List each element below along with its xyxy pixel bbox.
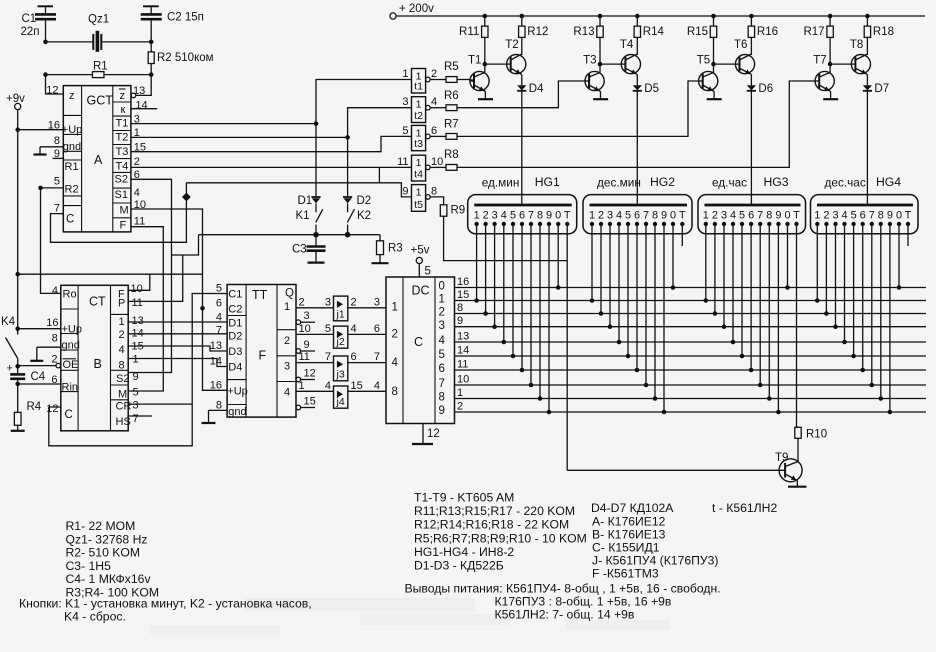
node A +Up <box>15 127 20 132</box>
svg-text:M: M <box>118 389 127 401</box>
svg-text:0: 0 <box>784 210 790 222</box>
svg-text:8: 8 <box>392 386 398 398</box>
wire B 8 to F D4 <box>128 359 227 367</box>
pin bubble F Q4 inverted <box>296 405 301 410</box>
svg-text:5: 5 <box>510 210 516 222</box>
resistor R14 <box>635 14 640 19</box>
svg-text:9: 9 <box>775 210 781 222</box>
svg-text:T4: T4 <box>620 39 634 51</box>
svg-text:15: 15 <box>457 289 469 301</box>
ground C3 <box>315 251 317 263</box>
svg-text:ед.мин: ед.мин <box>482 175 520 189</box>
wire D5 to display anode <box>636 91 638 205</box>
wire j1 to DC <box>348 307 386 309</box>
node K2 <box>345 232 351 238</box>
pin bubble t3 out <box>426 134 431 139</box>
svg-text:10: 10 <box>131 283 143 295</box>
svg-text:C3: C3 <box>292 244 307 256</box>
svg-text:14: 14 <box>135 99 147 111</box>
svg-text:T: T <box>793 210 800 222</box>
wire HG4 T stub <box>907 224 909 246</box>
svg-text:1: 1 <box>589 210 595 222</box>
svg-text:7: 7 <box>133 413 139 425</box>
wire D4 to display anode <box>521 91 523 205</box>
svg-text:gnd: gnd <box>228 406 246 418</box>
ground T3 emitter <box>593 98 608 100</box>
resistor R13 <box>598 14 603 19</box>
svg-text:4: 4 <box>216 312 222 324</box>
svg-text:Q: Q <box>285 288 294 300</box>
wire +9v to B +Up <box>18 328 61 330</box>
svg-text:6: 6 <box>51 374 57 386</box>
node 9v feed F <box>15 272 20 277</box>
svg-text:Qz1: Qz1 <box>88 14 109 26</box>
svg-text:7: 7 <box>54 202 60 214</box>
pin bubble t1 out <box>426 77 431 82</box>
svg-text:11: 11 <box>457 359 468 371</box>
capacitor C1 <box>35 13 56 16</box>
buffer j3 K561PU4 <box>334 356 348 381</box>
svg-text:Rin: Rin <box>62 382 79 394</box>
svg-text:3: 3 <box>439 320 445 332</box>
svg-text:0: 0 <box>439 280 445 292</box>
svg-text:16: 16 <box>457 276 469 288</box>
node T5 collector <box>711 62 716 67</box>
svg-text:HG1-HG4 - ИН8-2: HG1-HG4 - ИН8-2 <box>414 545 514 559</box>
svg-text:15: 15 <box>351 380 363 392</box>
node T1-D1 <box>314 121 319 126</box>
svg-text:16: 16 <box>46 317 58 329</box>
svg-text:t4: t4 <box>414 169 423 181</box>
svg-text:z: z <box>69 90 75 102</box>
svg-text:T: T <box>679 210 686 222</box>
svg-text:2: 2 <box>483 210 489 222</box>
svg-text:R14: R14 <box>643 26 665 38</box>
svg-text:j2: j2 <box>336 336 345 348</box>
terminal +200v <box>390 13 396 19</box>
svg-text:OE: OE <box>63 359 79 371</box>
resistor R10 <box>795 427 801 438</box>
svg-text:4: 4 <box>392 357 399 369</box>
node T7 collector <box>828 62 833 67</box>
wire DC output lines <box>455 287 927 289</box>
svg-text:2: 2 <box>431 68 437 80</box>
diode D4 <box>517 85 526 90</box>
svg-text:10: 10 <box>431 156 443 168</box>
op-amp U A K176IE12 GCT counter <box>63 86 131 232</box>
node B +Up <box>15 326 20 331</box>
svg-text:13: 13 <box>210 340 222 352</box>
svg-text:4: 4 <box>119 344 125 356</box>
svg-text:t - К561ЛН2: t - К561ЛН2 <box>712 501 777 515</box>
svg-text:3: 3 <box>284 361 290 373</box>
svg-text:2: 2 <box>392 329 398 341</box>
display tube HG2 IN8-2 <box>583 195 692 234</box>
wire B 1 to F D1 <box>128 321 227 323</box>
node R1 right <box>149 72 154 77</box>
svg-text:4: 4 <box>52 285 58 297</box>
svg-text:F: F <box>120 220 127 232</box>
capacitor C2 <box>141 13 162 16</box>
svg-text:8: 8 <box>52 333 58 345</box>
wire F Q1 to j1 <box>296 307 334 309</box>
resistor R15 <box>711 14 716 19</box>
svg-text:T3: T3 <box>583 55 596 67</box>
svg-text:R7: R7 <box>444 119 459 131</box>
svg-text:2: 2 <box>134 156 140 168</box>
pin T HG3 <box>794 222 798 226</box>
svg-text:8: 8 <box>457 302 463 314</box>
svg-text:Кнопки: K1 - установка минут,: Кнопки: K1 - установка минут, K2 - устан… <box>19 597 312 611</box>
svg-text:T9: T9 <box>775 452 788 464</box>
diode D5 <box>633 85 642 90</box>
node K4-C4-OE <box>15 364 20 369</box>
wire A F to B M <box>128 227 163 391</box>
svg-text:D2: D2 <box>228 331 242 343</box>
svg-text:R4: R4 <box>27 401 42 413</box>
crystal Qz1 <box>92 34 94 50</box>
ground T5 emitter <box>707 98 722 100</box>
svg-text:Выводы питания: К561ПУ4- 8-общ: Выводы питания: К561ПУ4- 8-общ , 1 +5в, … <box>405 582 721 596</box>
ground B gnd pin8 <box>37 346 61 348</box>
inverter t3 K561LN2 <box>412 125 426 150</box>
svg-text:6: 6 <box>439 363 445 375</box>
svg-text:5: 5 <box>739 210 745 222</box>
svg-text:D2: D2 <box>357 195 372 207</box>
svg-text:2: 2 <box>351 296 357 308</box>
svg-text:DC: DC <box>412 284 430 298</box>
resistor R4 <box>17 384 19 413</box>
svg-text:T7: T7 <box>813 55 826 67</box>
svg-text:C: C <box>65 409 73 421</box>
pin T HG2 <box>680 222 684 226</box>
wire +200v rail <box>396 15 925 17</box>
wire R8 to T7 <box>457 81 815 167</box>
node F C2 <box>200 306 205 311</box>
svg-text:R2 510ком: R2 510ком <box>157 52 214 64</box>
wire A T1 to t1 <box>131 123 316 125</box>
svg-text:дес.мин: дес.мин <box>597 175 641 189</box>
ground R4 <box>17 425 19 431</box>
svg-text:1: 1 <box>133 354 139 366</box>
svg-text:D4: D4 <box>529 83 544 95</box>
svg-text:9: 9 <box>457 315 463 327</box>
wire R7 to T5 <box>457 81 699 136</box>
svg-text:14: 14 <box>457 345 469 357</box>
svg-text:1: 1 <box>457 387 463 399</box>
svg-text:T: T <box>905 210 912 222</box>
svg-text:6: 6 <box>374 323 380 335</box>
pin bubble t5 out <box>426 195 431 200</box>
node A S1 junction <box>182 193 191 202</box>
svg-text:+Up: +Up <box>227 385 248 397</box>
resistor R7 <box>430 135 446 137</box>
svg-text:7: 7 <box>216 325 222 337</box>
svg-text:D4: D4 <box>228 362 242 374</box>
transistor T6 <box>735 55 754 74</box>
svg-text:1: 1 <box>392 302 398 314</box>
svg-text:4: 4 <box>325 380 331 392</box>
pin T HG4 <box>906 222 910 226</box>
svg-text:S2: S2 <box>116 373 129 385</box>
svg-text:HG2: HG2 <box>650 175 675 189</box>
svg-text:C4- 1 МКФх16v: C4- 1 МКФх16v <box>66 572 152 586</box>
svg-text:C- К155ИД1: C- К155ИД1 <box>592 541 660 555</box>
inverter t4 K561LN2 <box>412 155 426 181</box>
svg-text:4: 4 <box>284 387 290 399</box>
svg-text:5: 5 <box>325 323 331 335</box>
svg-text:A: A <box>94 153 103 167</box>
svg-text:8: 8 <box>439 392 445 404</box>
svg-text:2: 2 <box>823 210 829 222</box>
capacitor C4 <box>10 373 25 376</box>
wire B 4 to F D3 <box>128 346 227 351</box>
svg-text:16: 16 <box>210 379 222 391</box>
svg-text:12: 12 <box>46 84 58 96</box>
inverter t5 K561LN2 <box>412 185 426 212</box>
transistor T2 <box>507 55 526 74</box>
wire crystal row <box>46 41 94 43</box>
svg-text:9: 9 <box>402 185 408 197</box>
pins HG2 <box>590 222 594 226</box>
wire HG2 T stub <box>681 224 683 246</box>
svg-text:R2- 510 KOM: R2- 510 KOM <box>66 546 141 560</box>
switch K2 <box>347 209 354 222</box>
pin bubble t4 out <box>426 165 431 170</box>
pins HG1 <box>474 222 478 226</box>
svg-text:R17: R17 <box>803 26 824 38</box>
svg-text:13: 13 <box>132 315 144 327</box>
svg-text:1: 1 <box>416 157 422 169</box>
svg-text:4: 4 <box>501 210 507 222</box>
node R1 left <box>43 72 48 77</box>
transistor T5 <box>699 71 718 90</box>
svg-text:R5: R5 <box>444 61 459 73</box>
svg-text:j1: j1 <box>336 309 345 321</box>
svg-text:S2: S2 <box>115 174 128 186</box>
wire R6 to T3 <box>457 81 585 108</box>
svg-text:R1- 22 MOM: R1- 22 MOM <box>66 519 136 533</box>
wire B F pin10 <box>128 274 150 290</box>
svg-text:6: 6 <box>860 210 866 222</box>
svg-text:K4: K4 <box>1 316 16 328</box>
transistor T7 <box>815 71 834 90</box>
svg-text:T1: T1 <box>468 55 481 67</box>
svg-text:9: 9 <box>439 405 445 417</box>
node T3 collector <box>598 62 603 67</box>
svg-text:22п: 22п <box>21 26 40 38</box>
svg-text:13: 13 <box>457 331 469 343</box>
svg-text:8: 8 <box>652 210 658 222</box>
switch K1 <box>316 209 323 222</box>
wire A C loop to S1 <box>51 183 187 243</box>
ground T1 emitter <box>478 98 493 100</box>
svg-text:J- К561ПУ4 (К176ПУ3): J- К561ПУ4 (К176ПУ3) <box>592 554 718 568</box>
resistor R18 <box>865 14 870 19</box>
svg-text:HG4: HG4 <box>876 175 901 189</box>
resistor R11 <box>483 14 488 19</box>
wire buttons line <box>172 235 199 255</box>
pins HG3 <box>704 222 708 226</box>
svg-text:2: 2 <box>712 210 718 222</box>
svg-text:C1: C1 <box>228 289 242 301</box>
svg-text:R6: R6 <box>444 90 459 102</box>
resistor R2 <box>150 42 152 52</box>
wire A M to F C2 and +Up <box>131 209 227 390</box>
ground A gnd pin8 <box>40 146 63 148</box>
wire R2 to A pin13 <box>136 75 151 96</box>
pin T HG1 <box>565 222 569 226</box>
pin bubble F Q1 inverted <box>296 320 301 325</box>
node B Rin <box>15 382 20 387</box>
svg-text:12: 12 <box>46 403 58 415</box>
flip-flop U F K561TM3 TT <box>227 285 296 418</box>
svg-text:T1: T1 <box>116 117 129 129</box>
diode D7 <box>863 85 872 90</box>
svg-text:8: 8 <box>119 360 125 372</box>
wire t4 drop <box>378 167 380 182</box>
svg-text:5: 5 <box>133 386 139 398</box>
svg-text:R18: R18 <box>873 26 894 38</box>
wire C1 to A pin12 <box>46 75 64 94</box>
svg-text:T1-T9 - KT605 AM: T1-T9 - KT605 AM <box>414 491 514 505</box>
svg-text:4: 4 <box>439 335 446 347</box>
svg-text:B- К176ИЕ13: B- К176ИЕ13 <box>592 528 666 542</box>
node T2-D2 <box>345 135 350 140</box>
svg-text:4: 4 <box>134 187 140 199</box>
terminal +9v <box>15 103 21 109</box>
wire D6 to display anode <box>750 91 752 205</box>
svg-text:7: 7 <box>643 210 649 222</box>
wire B 2 to F D2 <box>128 333 227 335</box>
svg-text:K4 - сброс.: K4 - сброс. <box>64 610 126 624</box>
svg-text:5: 5 <box>54 175 60 187</box>
svg-text:3: 3 <box>325 296 331 308</box>
resistor R12 <box>520 14 525 19</box>
wire A S2 to B S2 <box>128 179 171 372</box>
svg-text:дес.час: дес.час <box>825 175 866 189</box>
svg-text:8: 8 <box>537 210 543 222</box>
svg-text:gnd: gnd <box>63 141 81 153</box>
svg-text:1: 1 <box>284 301 290 313</box>
svg-text:К176ПУ3 : 8-общ. 1 +5в, 16 +9в: К176ПУ3 : 8-общ. 1 +5в, 16 +9в <box>495 595 672 609</box>
svg-text:1: 1 <box>814 210 820 222</box>
svg-text:GCT: GCT <box>87 93 114 107</box>
wire A pin9 stub <box>53 157 64 159</box>
svg-text:D3: D3 <box>228 346 242 358</box>
svg-text:0: 0 <box>670 210 676 222</box>
svg-text:7: 7 <box>869 210 875 222</box>
wire A T4 to t4 <box>131 166 412 168</box>
svg-text:8: 8 <box>54 135 60 147</box>
svg-text:9: 9 <box>887 210 893 222</box>
pin bubble t2 out <box>426 105 431 110</box>
svg-text:C4: C4 <box>31 371 46 383</box>
resistor R8 <box>430 166 446 168</box>
svg-text:12: 12 <box>427 428 440 440</box>
svg-text:2: 2 <box>457 401 463 413</box>
svg-text:t1: t1 <box>414 81 423 93</box>
svg-text:t3: t3 <box>414 138 423 150</box>
wire B HS stub <box>128 415 152 417</box>
svg-text:7: 7 <box>325 351 331 363</box>
svg-text:z: z <box>120 90 126 102</box>
svg-text:R11;R13;R15;R17 - 220 KOM: R11;R13;R15;R17 - 220 KOM <box>414 504 575 518</box>
ground T9 <box>796 481 798 487</box>
buffer j4 K561PU4 <box>334 386 348 408</box>
svg-text:5: 5 <box>216 283 222 295</box>
svg-text:R2: R2 <box>65 184 79 196</box>
wire HG3 T to R10 <box>796 224 798 427</box>
svg-text:j3: j3 <box>336 369 345 381</box>
pins HG4 <box>815 222 819 226</box>
svg-text:4: 4 <box>730 210 736 222</box>
svg-text:1: 1 <box>439 294 445 306</box>
ground F gnd pin8 <box>209 409 228 411</box>
svg-text:gnd: gnd <box>62 340 80 352</box>
buffer j2 K561PU4 <box>334 326 348 348</box>
svg-text:8: 8 <box>431 185 437 197</box>
wire j3 to DC <box>348 362 386 364</box>
svg-text:R9: R9 <box>451 205 466 217</box>
svg-text:R1: R1 <box>65 161 79 173</box>
svg-text:9: 9 <box>133 371 139 383</box>
svg-text:+: + <box>7 363 13 375</box>
svg-text:HS: HS <box>116 416 131 428</box>
wire D7 to display anode <box>866 91 868 205</box>
svg-text:T: T <box>564 210 571 222</box>
wire R9 to HG1 T line <box>444 216 568 260</box>
svg-text:0: 0 <box>555 210 561 222</box>
svg-text:4: 4 <box>841 210 847 222</box>
svg-text:F -К561ТМ3: F -К561ТМ3 <box>592 567 659 581</box>
svg-text:14: 14 <box>210 356 222 368</box>
svg-text:2: 2 <box>439 307 445 319</box>
svg-text:CT: CT <box>89 295 106 309</box>
resistor R9 <box>430 197 443 205</box>
svg-text:T2: T2 <box>116 132 129 144</box>
svg-text:5: 5 <box>402 125 408 137</box>
faint scan smudges <box>245 598 475 611</box>
pin bubble B OE <box>56 363 61 368</box>
inverter t2 K561LN2 <box>412 97 426 123</box>
display tube HG4 IN8-2 <box>811 195 919 234</box>
svg-text:D1: D1 <box>228 318 242 330</box>
svg-text:+ 200v: + 200v <box>399 3 434 15</box>
svg-text:3: 3 <box>832 210 838 222</box>
svg-text:9: 9 <box>546 210 552 222</box>
svg-text:1: 1 <box>703 210 709 222</box>
svg-text:13: 13 <box>133 85 145 97</box>
wire F Q3 to j3 <box>296 362 334 364</box>
transistor T3 <box>585 71 604 90</box>
svg-text:C2 15п: C2 15п <box>167 12 204 24</box>
svg-text:8: 8 <box>766 210 772 222</box>
svg-text:B: B <box>94 357 102 371</box>
svg-text:6: 6 <box>634 210 640 222</box>
ground T7 emitter <box>823 98 838 100</box>
svg-text:7: 7 <box>374 351 380 363</box>
wire A T2 to t2 <box>131 136 348 138</box>
svg-text:P: P <box>118 298 125 310</box>
node K1 <box>313 232 319 238</box>
svg-text:3: 3 <box>133 400 139 412</box>
svg-text:t5: t5 <box>414 199 423 211</box>
svg-text:D1: D1 <box>298 195 313 207</box>
wire B P riser <box>128 255 183 301</box>
svg-text:9: 9 <box>304 339 310 351</box>
svg-text:D6: D6 <box>758 83 773 95</box>
